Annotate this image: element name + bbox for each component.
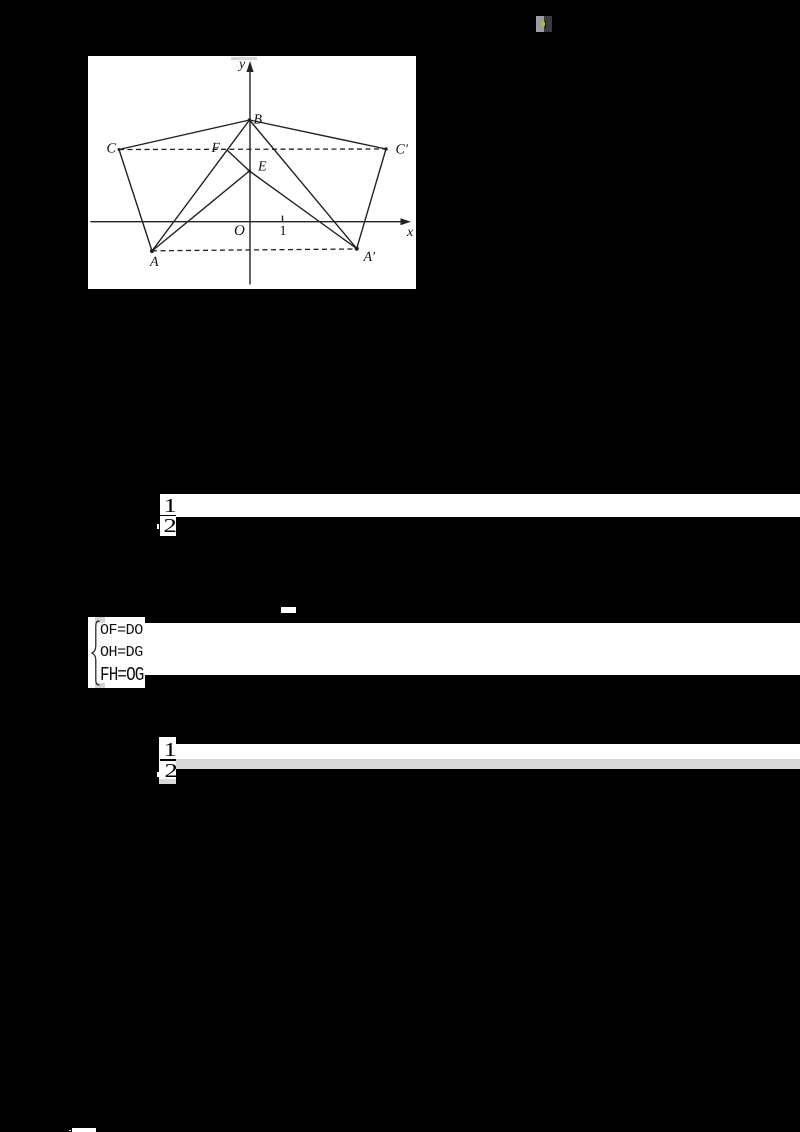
brace { — [90, 620, 102, 686]
fraction 2 white band — [176, 744, 800, 759]
dashed A-A' — [152, 249, 357, 251]
segment E-A' — [249, 171, 356, 249]
fraction 1 bar — [160, 515, 177, 517]
equation line 2: OH=DG — [100, 647, 146, 658]
side B-C' — [250, 120, 387, 149]
svg-text:F: F — [211, 141, 221, 156]
grey smudge top of box — [95, 617, 105, 623]
equation band — [145, 623, 800, 675]
svg-text:x: x — [406, 225, 414, 240]
fraction 2 numerator — [162, 743, 180, 758]
x-axis arrowhead — [401, 218, 412, 225]
segment F-E — [227, 150, 249, 171]
fraction 2 speck — [157, 772, 160, 777]
fraction 1 speck — [157, 524, 160, 529]
segment A-E — [152, 171, 249, 251]
segment A-B — [152, 120, 250, 251]
fraction 1 denominator — [161, 519, 179, 534]
white dash above system — [281, 607, 297, 613]
top-right icon — [536, 16, 544, 33]
vertex dots — [118, 118, 388, 253]
segment B-A' — [250, 120, 357, 249]
equation line 1: OF=DO — [100, 625, 146, 636]
fraction 1 band — [160, 494, 800, 517]
svg-text:A: A — [149, 255, 159, 270]
fraction 2 denominator — [162, 764, 180, 779]
equation line 3: FH=OG — [100, 669, 146, 680]
fraction 2 grey band — [176, 759, 800, 769]
y-axis — [249, 70, 251, 284]
fraction 2 column — [159, 737, 176, 779]
grey smudge top — [231, 57, 257, 60]
side C-A — [119, 150, 152, 252]
svg-text:1: 1 — [280, 224, 287, 239]
labels — [107, 57, 415, 270]
svg-text:O: O — [234, 223, 245, 239]
svg-text:B: B — [254, 113, 263, 128]
grey smudge bottom of box — [95, 683, 105, 688]
tick 1 — [282, 216, 284, 222]
svg-text:C: C — [107, 142, 117, 157]
svg-text:E: E — [257, 160, 267, 175]
equation system white box — [88, 617, 145, 688]
diagram box — [88, 56, 416, 289]
svg-text:C′: C′ — [396, 143, 409, 158]
svg-text:A′: A′ — [363, 250, 377, 265]
fraction 2 column grey bottom — [159, 779, 176, 784]
bottom-left white mark — [72, 1128, 96, 1132]
side C'-A' — [357, 149, 386, 249]
y-axis arrowhead — [246, 61, 253, 72]
fraction 1 numerator — [162, 498, 180, 514]
fraction 1 "2" box — [160, 517, 177, 536]
side C-B — [119, 120, 250, 150]
fraction 2 bar — [160, 759, 176, 761]
x-axis — [91, 221, 403, 223]
dashed C-C' — [119, 148, 386, 151]
svg-text:y: y — [237, 57, 246, 72]
